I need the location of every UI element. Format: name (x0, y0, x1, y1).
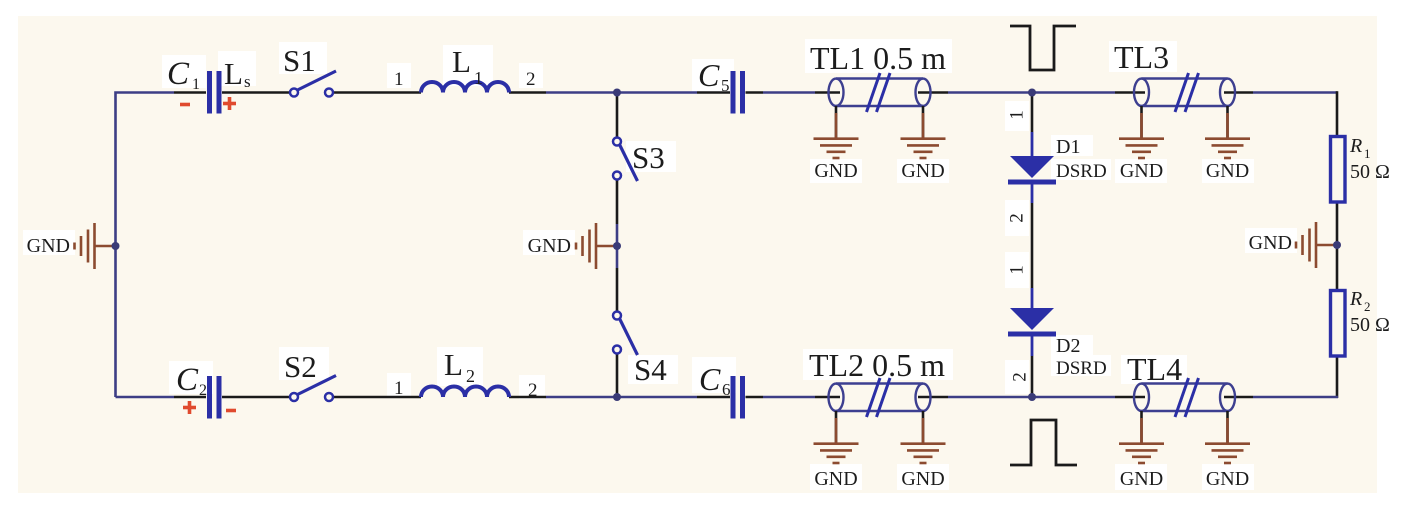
waveform marker positive pulse (1010, 420, 1077, 465)
middle ground node dot (613, 242, 621, 250)
wire C6 left pin (697, 396, 730, 399)
svg-text:L: L (224, 56, 243, 91)
node A junction dot (613, 89, 621, 97)
svg-text:S1: S1 (283, 43, 316, 78)
wire S4 to node C (616, 354, 619, 398)
svg-text:2: 2 (199, 382, 207, 399)
ground under TL3 right (1205, 106, 1250, 158)
resistor R2 (1331, 291, 1346, 357)
svg-text:DSRD: DSRD (1056, 358, 1107, 379)
wire D2 to node D (1031, 356, 1034, 397)
C1 minus polarity mark (180, 103, 190, 107)
inductor L2 (421, 387, 509, 398)
wire TL1 to node B to TL3 (948, 91, 1115, 94)
waveform marker negative pulse (1010, 26, 1076, 70)
svg-text:GND: GND (528, 235, 571, 257)
wire R1 to R2 through node (1336, 201, 1339, 291)
node C junction dot (613, 393, 621, 401)
diode D2 DSRD (1008, 308, 1056, 337)
svg-text:D2: D2 (1056, 335, 1080, 357)
node D junction dot (1028, 393, 1036, 401)
switch S1 (290, 71, 336, 97)
wire TL4 to bottom right corner (1253, 396, 1338, 399)
svg-text:GND: GND (1249, 232, 1292, 254)
inductor L1 (421, 82, 509, 93)
C2 plus polarity mark (183, 401, 196, 414)
switch S2 (290, 376, 336, 402)
svg-text:S4: S4 (634, 352, 667, 387)
svg-text:2: 2 (466, 366, 475, 386)
ground under TL2 right (901, 411, 946, 463)
ground under TL2 left (814, 411, 859, 463)
C2 minus polarity mark (226, 409, 236, 413)
svg-text:GND: GND (1206, 468, 1249, 490)
svg-text:2: 2 (526, 69, 536, 90)
svg-text:2: 2 (528, 380, 538, 401)
wire C6 right pin (746, 396, 764, 399)
wire C2 left pin (174, 396, 206, 399)
ground under TL3 left (1119, 106, 1164, 158)
wire TL3 to top right corner (1253, 91, 1337, 94)
svg-text:50 Ω: 50 Ω (1350, 161, 1390, 183)
svg-text:TL3: TL3 (1114, 39, 1169, 75)
wire C1 left pin (174, 91, 206, 94)
svg-text:2: 2 (1364, 299, 1371, 314)
svg-text:L: L (444, 347, 463, 382)
svg-text:C: C (699, 361, 721, 397)
ground under TL1 right (901, 106, 946, 158)
wire node B down to D1 pin 1 (1031, 93, 1034, 133)
wire D2 anode lead (1031, 288, 1034, 310)
svg-text:TL2 0.5 m: TL2 0.5 m (809, 347, 945, 383)
svg-text:C: C (698, 57, 720, 93)
svg-text:1: 1 (394, 378, 404, 399)
wire TL2 left pin (815, 396, 840, 399)
svg-text:1: 1 (192, 76, 200, 93)
wire bottom rail left segment (116, 396, 175, 399)
svg-text:GND: GND (1120, 160, 1163, 182)
ground under TL4 right (1205, 411, 1250, 463)
wire TL1 right pin (918, 91, 948, 94)
wire TL1 left pin (815, 91, 840, 94)
wire C5 to TL1 (763, 91, 815, 94)
TL4 length slashes (1175, 378, 1199, 417)
switch S4 (613, 312, 638, 356)
transmission line TL2 (829, 384, 931, 412)
svg-text:6: 6 (722, 380, 731, 399)
svg-text:D1: D1 (1056, 136, 1080, 158)
wire S3 to middle ground node (616, 180, 619, 225)
capacitor C6 (733, 376, 743, 419)
svg-text:L: L (452, 44, 471, 79)
wire C2 to S2 (222, 396, 291, 399)
wire TL2 to node D to TL4 (948, 396, 1115, 399)
svg-text:GND: GND (814, 160, 857, 182)
svg-text:1: 1 (1364, 146, 1371, 161)
capacitor C1 (210, 71, 220, 114)
TL3 length slashes (1175, 73, 1199, 112)
ground left (75, 223, 116, 269)
svg-text:DSRD: DSRD (1056, 161, 1107, 182)
transmission line TL1 (829, 79, 931, 107)
wire S1 to L1 pin 1 (333, 91, 422, 94)
svg-text:1: 1 (394, 69, 404, 90)
switch S3 (613, 138, 638, 182)
wire TL4 left pin (1115, 396, 1145, 399)
svg-text:GND: GND (901, 160, 944, 182)
ground right (1296, 222, 1337, 268)
wire at middle ground node (616, 224, 619, 268)
wire top rail left vertical riser (116, 93, 175, 398)
TL2 length slashes (867, 378, 891, 417)
svg-text:C: C (167, 56, 190, 92)
svg-text:R: R (1349, 135, 1362, 157)
wire S2 to L2 pin 1 (333, 396, 422, 399)
svg-text:S2: S2 (284, 349, 317, 384)
svg-text:GND: GND (27, 235, 70, 257)
wire TL3 right pin (1224, 91, 1253, 94)
wire L1 to node A to C5 (546, 91, 697, 94)
C1 plus polarity mark (223, 97, 236, 110)
capacitor C2 (210, 376, 220, 419)
transmission line TL4 (1134, 384, 1235, 412)
wire L2 pin 2 (509, 396, 546, 399)
TL1 length slashes (867, 73, 891, 112)
wire TL2 right pin (918, 396, 948, 399)
transmission line TL3 (1134, 79, 1235, 107)
svg-text:2: 2 (1010, 372, 1031, 382)
svg-text:s: s (244, 72, 251, 91)
svg-text:1: 1 (474, 68, 483, 88)
svg-text:TL1 0.5 m: TL1 0.5 m (810, 40, 946, 76)
svg-text:1: 1 (1007, 110, 1028, 120)
wire ground node to S4 (616, 268, 619, 312)
wire R2 to bottom right corner (1336, 355, 1339, 398)
svg-text:C: C (176, 362, 199, 398)
wire L1 pin 2 (509, 91, 546, 94)
wire right rail to R1 (1336, 91, 1339, 137)
ground under TL1 left (814, 106, 859, 158)
wire L2 to node C to C6 (546, 396, 697, 399)
wire TL4 right pin (1224, 396, 1253, 399)
wire C6 to TL2 (763, 396, 815, 399)
svg-text:GND: GND (1120, 468, 1163, 490)
wire TL3 left pin (1115, 91, 1145, 94)
wire node A down to S3 (616, 93, 619, 138)
wire D2 cathode lead (1031, 334, 1034, 356)
svg-text:GND: GND (901, 468, 944, 490)
wire C5 right pin (746, 91, 764, 94)
ground middle (576, 223, 617, 269)
left ground node dot (112, 242, 120, 250)
wire D1 anode lead (1031, 132, 1034, 158)
resistor R1 (1331, 137, 1346, 203)
svg-text:5: 5 (721, 76, 730, 95)
wire D1 cathode lead (1031, 182, 1034, 203)
wire C1 to S1 (222, 91, 291, 94)
svg-text:GND: GND (814, 468, 857, 490)
svg-text:S3: S3 (632, 140, 665, 175)
capacitor C5 (733, 71, 743, 114)
svg-text:R: R (1349, 288, 1362, 310)
diode D1 DSRD (1008, 156, 1056, 185)
svg-text:GND: GND (1206, 160, 1249, 182)
ground under TL4 left (1119, 411, 1164, 463)
right ground node dot (1333, 241, 1341, 249)
svg-text:50 Ω: 50 Ω (1350, 314, 1390, 336)
wire C5 left pin (697, 91, 730, 94)
wire D1 to D2 (1031, 203, 1034, 288)
svg-text:2: 2 (1007, 213, 1028, 223)
svg-text:1: 1 (1007, 265, 1028, 275)
node B junction dot (1028, 89, 1036, 97)
svg-text:TL4: TL4 (1127, 351, 1182, 387)
